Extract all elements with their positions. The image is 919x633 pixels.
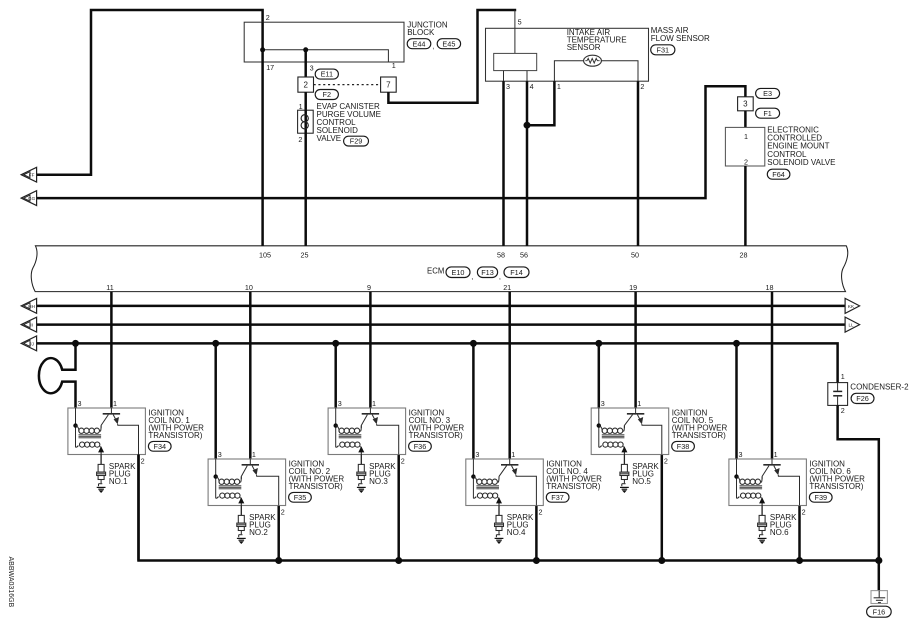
coil 6 secondary output lead with HV arrow — [761, 498, 763, 505]
coil 5 primary winding — [599, 426, 603, 432]
svg-text:FLOW SENSOR: FLOW SENSOR — [651, 34, 710, 43]
coil 1 transistor emitter arrow — [114, 417, 119, 424]
svg-text:2: 2 — [802, 507, 806, 516]
wire ECM to ignition coil no.4 pin 1 — [508, 292, 511, 459]
junction block node at pin 17 riser — [260, 47, 265, 52]
wire FF feed: arrow FF to junction block pin 2 — [37, 10, 263, 175]
spark plug NO.4 symbol — [495, 515, 504, 537]
node JJ bus at coil 3 — [332, 340, 339, 347]
svg-text:2: 2 — [298, 135, 302, 144]
coil 3 primary winding — [336, 426, 340, 432]
coil 1 secondary output lead with HV arrow — [100, 447, 102, 454]
coil 2 secondary winding — [216, 497, 219, 499]
ignition coil no.1 (F34) box — [68, 408, 145, 455]
svg-text:58: 58 — [497, 251, 505, 260]
connector oval F35 — [289, 492, 312, 502]
svg-text:1: 1 — [774, 450, 778, 459]
ignition coil no.5 (F38) box — [591, 408, 669, 455]
svg-text:1: 1 — [252, 450, 256, 459]
arrow HH — [21, 299, 36, 314]
svg-text:F29: F29 — [350, 137, 363, 146]
connector oval F14 — [504, 267, 529, 278]
ignition coil no.2 (F35) box — [208, 459, 286, 506]
wire MAF pin 3 to ECM pin 58 — [502, 81, 505, 246]
svg-text:TRANSISTOR): TRANSISTOR) — [148, 431, 202, 440]
connector box 7 (E11/F2) — [381, 77, 397, 92]
bus JJ to condenser — [37, 343, 838, 382]
coil 6 internal primary circuit — [737, 459, 800, 506]
connector oval E45 — [437, 39, 460, 49]
wire JJ bus to coil 6 pin 3 — [735, 343, 738, 459]
ground of spark plug NO.3 — [357, 487, 366, 492]
svg-text:F36: F36 — [414, 442, 427, 451]
svg-text:GG: GG — [28, 196, 36, 201]
coil 4 primary winding — [473, 477, 477, 483]
EVAP solenoid coil glyph — [301, 115, 308, 129]
coil 6 secondary winding — [737, 497, 740, 499]
ground of spark plug NO.5 — [620, 487, 629, 492]
bus HH/KK — [37, 305, 846, 308]
svg-text:,: , — [499, 272, 501, 281]
spark plug NO.5 symbol — [620, 464, 629, 486]
node ground bus at coil 4 — [533, 557, 540, 564]
wire coil 5 pin 2 to ground bus — [661, 455, 664, 561]
condenser internal leads — [837, 383, 839, 391]
wire to body ground F16 — [878, 561, 881, 591]
svg-text:25: 25 — [301, 251, 309, 260]
svg-text:VALVE: VALVE — [317, 134, 342, 143]
coil 4 core — [476, 486, 499, 489]
svg-text:1: 1 — [299, 102, 303, 111]
node ground bus / body ground junction — [875, 557, 882, 564]
coil 2 secondary output lead with HV arrow — [240, 498, 242, 505]
svg-text:56: 56 — [520, 251, 528, 260]
coil 3 node: pin3/primary junction — [334, 423, 338, 427]
coil 4 transistor emitter arrow — [512, 468, 517, 475]
node ground bus at coil 2 — [275, 557, 282, 564]
connector oval F31 — [651, 45, 675, 55]
mass air flow sensor box (F31) — [486, 28, 649, 81]
wire MAF pin 4 to ECM pin 56 — [526, 81, 529, 246]
svg-text:17: 17 — [266, 63, 274, 72]
svg-text:3: 3 — [78, 399, 82, 408]
coil 3 secondary winding — [336, 446, 339, 448]
coil 4 secondary winding — [473, 497, 476, 499]
connector box 2 (E11/F2) — [298, 77, 314, 92]
node ground bus at coil 3 — [395, 557, 402, 564]
svg-text:3: 3 — [739, 450, 743, 459]
wire ECM to ignition coil no.6 pin 1 — [771, 292, 774, 459]
spark plug NO.6 symbol — [758, 515, 767, 537]
ground of spark plug NO.1 — [97, 487, 106, 492]
svg-text:E3: E3 — [763, 89, 772, 98]
wire GG: arrow GG to electronic engine mount connector — [37, 86, 746, 198]
svg-text:18: 18 — [766, 283, 774, 292]
svg-text:E44: E44 — [413, 39, 426, 48]
svg-text:E11: E11 — [321, 70, 333, 79]
node ground bus at coil 6 — [796, 557, 803, 564]
wire ECM to ignition coil no.1 pin 1 — [110, 292, 113, 408]
MAF element leads — [503, 71, 505, 82]
svg-text:3: 3 — [601, 399, 605, 408]
wire coil 4 pin 2 to ground bus — [535, 506, 538, 561]
svg-text:LL: LL — [848, 323, 854, 328]
connector oval F26 — [851, 393, 874, 403]
coil 4 secondary output lead with HV arrow — [498, 498, 500, 505]
svg-text:28: 28 — [740, 251, 748, 260]
connector oval F16 — [867, 606, 892, 617]
svg-text:II: II — [30, 323, 33, 328]
svg-text:SENSOR: SENSOR — [567, 43, 601, 52]
svg-text:NO.2: NO.2 — [249, 528, 268, 537]
svg-text:2: 2 — [266, 13, 270, 22]
connector oval E10 — [446, 267, 470, 278]
svg-text:FF: FF — [29, 173, 35, 178]
coil 6 primary winding — [737, 477, 741, 483]
svg-text:F1: F1 — [763, 109, 772, 118]
connector oval E3 — [756, 88, 780, 98]
wire ECM to ignition coil no.2 pin 1 — [249, 292, 252, 459]
svg-text:TRANSISTOR): TRANSISTOR) — [289, 482, 343, 491]
svg-text:3: 3 — [506, 82, 510, 91]
coil 4 internal primary circuit — [473, 459, 536, 506]
spark plug NO.1 symbol — [97, 464, 106, 486]
wire through EVAP solenoid down to ECM pin 25 — [304, 110, 307, 246]
coil 5 internal primary circuit — [599, 408, 662, 455]
dashed link between connector 2 and connector 7 — [314, 84, 381, 86]
svg-text:11: 11 — [106, 283, 113, 292]
svg-text:2: 2 — [281, 507, 285, 516]
svg-text:KK: KK — [848, 304, 855, 309]
coil 1 primary winding — [76, 426, 80, 432]
condenser plates — [833, 390, 842, 392]
wire JJ bus to coil 2 pin 3 — [214, 343, 217, 459]
svg-text:19: 19 — [629, 283, 637, 292]
svg-text:2: 2 — [303, 81, 308, 90]
wire junction block pin 3 to connector E11/F2 — [304, 50, 307, 77]
svg-text:E45: E45 — [442, 39, 455, 48]
ground of spark plug NO.6 — [758, 538, 767, 543]
coil 5 transistor emitter arrow — [638, 417, 643, 424]
coil 5 core — [602, 435, 625, 438]
svg-text:E10: E10 — [452, 268, 465, 277]
wire coil 2 to spark plug — [240, 506, 242, 516]
coil 3 secondary output lead with HV arrow — [360, 447, 362, 454]
svg-text:3: 3 — [743, 100, 748, 109]
svg-text:105: 105 — [259, 251, 271, 260]
ignition coil no.4 (F37) box — [466, 459, 544, 506]
EVAP canister purge volume control solenoid valve (F29) — [298, 110, 314, 133]
arrow LL — [845, 317, 860, 332]
svg-text:3: 3 — [310, 63, 314, 72]
coil 2 transistor emitter arrow — [253, 468, 258, 475]
arrow JJ — [21, 336, 36, 351]
svg-text:7: 7 — [386, 81, 391, 90]
svg-text:21: 21 — [503, 283, 511, 292]
coil 6 node: pin3/primary junction — [734, 474, 738, 478]
bus II/LL — [37, 323, 846, 326]
spark plug NO.2 symbol — [237, 515, 246, 537]
svg-text:1: 1 — [392, 61, 396, 70]
wire ECM to ignition coil no.5 pin 1 — [634, 292, 637, 408]
svg-text:1: 1 — [372, 399, 376, 408]
wire coil 3 to spark plug — [360, 455, 362, 465]
wire coil 1 pin 2 to ground bus — [137, 455, 140, 561]
coil 5 node: pin3/primary junction — [597, 423, 601, 427]
wire engine mount pin 2 to ECM pin 28 — [744, 166, 747, 246]
node JJ bus at coil 4 — [470, 340, 477, 347]
coil 1 core — [79, 435, 102, 438]
svg-text:3: 3 — [218, 450, 222, 459]
svg-text:NO.4: NO.4 — [507, 528, 526, 537]
svg-text:F13: F13 — [481, 268, 494, 277]
svg-text:50: 50 — [631, 251, 639, 260]
coil 5 secondary output lead with HV arrow — [623, 447, 625, 454]
connector oval F34 — [148, 441, 171, 451]
wire MAF pin 2 to ECM pin 50 — [637, 81, 640, 246]
wire ECM to ignition coil no.3 pin 1 — [369, 292, 372, 408]
wire pin5 drop into MAF sensing element — [514, 10, 516, 53]
svg-text:1: 1 — [841, 372, 845, 381]
coil 2 internal primary circuit — [216, 459, 279, 506]
wire coil 2 pin 2 to ground bus — [277, 506, 280, 561]
coil 2 node: pin3/primary junction — [214, 474, 218, 478]
spark plug NO.3 symbol — [357, 464, 366, 486]
svg-text:,: , — [471, 272, 473, 281]
svg-text:F37: F37 — [551, 493, 564, 502]
svg-text:SOLENOID VALVE: SOLENOID VALVE — [767, 158, 835, 167]
body ground F16 symbol — [871, 591, 887, 604]
ignition coil no.6 (F39) box — [729, 459, 807, 506]
svg-text:F31: F31 — [657, 45, 670, 54]
svg-text:BLOCK: BLOCK — [407, 28, 435, 37]
wire JJ bus to coil 1 pin 3 with loop — [39, 343, 76, 408]
electronic controlled engine mount control solenoid valve (F64) box — [725, 127, 764, 166]
junction block node at pin 3 riser — [303, 47, 308, 52]
svg-text:1: 1 — [511, 450, 515, 459]
svg-text:5: 5 — [518, 18, 522, 27]
arrow KK — [845, 298, 860, 313]
node JJ bus at coil 1 — [72, 340, 79, 347]
node ground bus at coil 5 — [658, 557, 665, 564]
condenser-2 (F26) box — [828, 383, 848, 406]
svg-text:10: 10 — [245, 283, 253, 292]
coil 6 core — [740, 486, 763, 489]
wire JJ bus to coil 4 pin 3 — [472, 343, 475, 459]
connector box 3 (E3/F1) — [738, 97, 754, 111]
svg-text:NO.6: NO.6 — [770, 528, 789, 537]
svg-text:2: 2 — [141, 456, 145, 465]
coil 3 transistor emitter arrow — [373, 417, 378, 424]
svg-text:HH: HH — [28, 304, 35, 309]
arrow II — [21, 317, 36, 332]
svg-text:NO.5: NO.5 — [632, 477, 651, 486]
svg-text:F2: F2 — [323, 90, 332, 99]
coil 3 internal primary circuit — [336, 408, 399, 455]
connector oval E44 — [407, 39, 431, 49]
ground of spark plug NO.4 — [495, 538, 504, 543]
connector oval F64 — [767, 169, 790, 179]
coil 1 secondary winding — [76, 446, 79, 448]
wire coil 6 pin 2 to ground bus — [798, 506, 801, 561]
IAT internal leads — [554, 61, 583, 81]
svg-text:1: 1 — [637, 399, 641, 408]
arrow FF — [21, 167, 36, 182]
wire JJ bus to coil 5 pin 3 — [598, 343, 601, 408]
wire coil 4 to spark plug — [498, 506, 500, 516]
connector oval F2 — [315, 90, 338, 100]
svg-text:CONDENSER-2: CONDENSER-2 — [850, 382, 909, 391]
svg-text:3: 3 — [475, 450, 479, 459]
wire connector 2 to EVAP solenoid pin 1 — [304, 92, 307, 110]
wire coil 1 to spark plug — [100, 455, 102, 465]
svg-text:NO.3: NO.3 — [369, 477, 388, 486]
svg-text:F39: F39 — [815, 493, 828, 502]
connector oval F38 — [672, 441, 695, 451]
node JJ bus at coil 6 — [733, 340, 740, 347]
coil 2 core — [219, 486, 242, 489]
junction block box (E44,E45) — [244, 22, 404, 62]
svg-text:JJ: JJ — [29, 341, 34, 346]
svg-text:TRANSISTOR): TRANSISTOR) — [546, 482, 600, 491]
connector oval F13 — [477, 267, 497, 278]
coil 6 transistor emitter arrow — [774, 468, 779, 475]
coil 2 primary winding — [216, 477, 220, 483]
MAF sensing element — [494, 53, 537, 70]
node JJ bus at coil 2 — [212, 340, 219, 347]
svg-text:2: 2 — [539, 507, 543, 516]
svg-text:2: 2 — [640, 82, 644, 91]
ignition coil no.3 (F36) box — [328, 408, 406, 455]
svg-text:1: 1 — [113, 399, 117, 408]
svg-text:2: 2 — [664, 456, 668, 465]
coil 3 core — [339, 435, 362, 438]
svg-text:F34: F34 — [154, 442, 167, 451]
svg-text:F38: F38 — [677, 442, 690, 451]
svg-text:1: 1 — [557, 82, 561, 91]
svg-text:4: 4 — [530, 82, 534, 91]
arrow GG — [21, 191, 36, 206]
svg-text:TRANSISTOR): TRANSISTOR) — [672, 431, 726, 440]
svg-text:F35: F35 — [294, 493, 307, 502]
svg-text:NO.1: NO.1 — [109, 477, 128, 486]
coil 5 secondary winding — [599, 446, 602, 448]
svg-text:F26: F26 — [856, 394, 869, 403]
connector oval F36 — [409, 441, 432, 451]
svg-text:TRANSISTOR): TRANSISTOR) — [809, 482, 863, 491]
svg-text:F14: F14 — [510, 268, 523, 277]
svg-text:2: 2 — [841, 406, 845, 415]
wire JJ bus to coil 3 pin 3 — [334, 343, 337, 408]
ground bus wire — [139, 455, 879, 561]
svg-text:F16: F16 — [873, 607, 886, 616]
coil 1 internal primary circuit — [76, 408, 139, 455]
connector oval F39 — [809, 492, 832, 502]
svg-text:2: 2 — [744, 157, 748, 166]
wire coil 6 to spark plug — [761, 506, 763, 516]
svg-text:3: 3 — [338, 399, 342, 408]
wire MAF pin 1 joining pin 4 wire — [527, 81, 554, 125]
wire connector 7 to mass air flow sensor pin 5 — [388, 10, 516, 103]
svg-text:F64: F64 — [772, 170, 785, 179]
coil 1 node: pin3/primary junction — [73, 423, 77, 427]
wire connector 3 to engine mount solenoid pin 1 — [744, 111, 747, 128]
ECM band (E10,F13,F14) — [31, 246, 848, 292]
wire condenser pin2 to ground bus corner — [838, 405, 879, 560]
connector oval F1 — [756, 108, 780, 118]
connector oval F29 — [344, 136, 369, 146]
svg-text:,: , — [432, 41, 434, 50]
ground of spark plug NO.2 — [237, 538, 246, 543]
intake air temperature sensor element — [584, 55, 602, 66]
svg-text:ABBWA0316GB: ABBWA0316GB — [7, 557, 14, 608]
node MAF pin1/pin4 junction — [524, 122, 531, 129]
wire coil 5 to spark plug — [623, 455, 625, 465]
svg-text:1: 1 — [744, 132, 748, 141]
coil 4 node: pin3/primary junction — [471, 474, 475, 478]
wire junction block pin 17 to ECM pin 105 — [261, 22, 264, 246]
svg-text:2: 2 — [401, 456, 405, 465]
connector oval E11 — [315, 69, 338, 79]
svg-text:TRANSISTOR): TRANSISTOR) — [409, 431, 463, 440]
wire coil 3 pin 2 to ground bus — [397, 455, 400, 561]
junction block internal bus — [263, 50, 389, 62]
svg-text:9: 9 — [367, 283, 371, 292]
connector oval F37 — [546, 492, 569, 502]
node JJ bus at coil 5 — [595, 340, 602, 347]
svg-text:ECM: ECM — [427, 267, 444, 276]
